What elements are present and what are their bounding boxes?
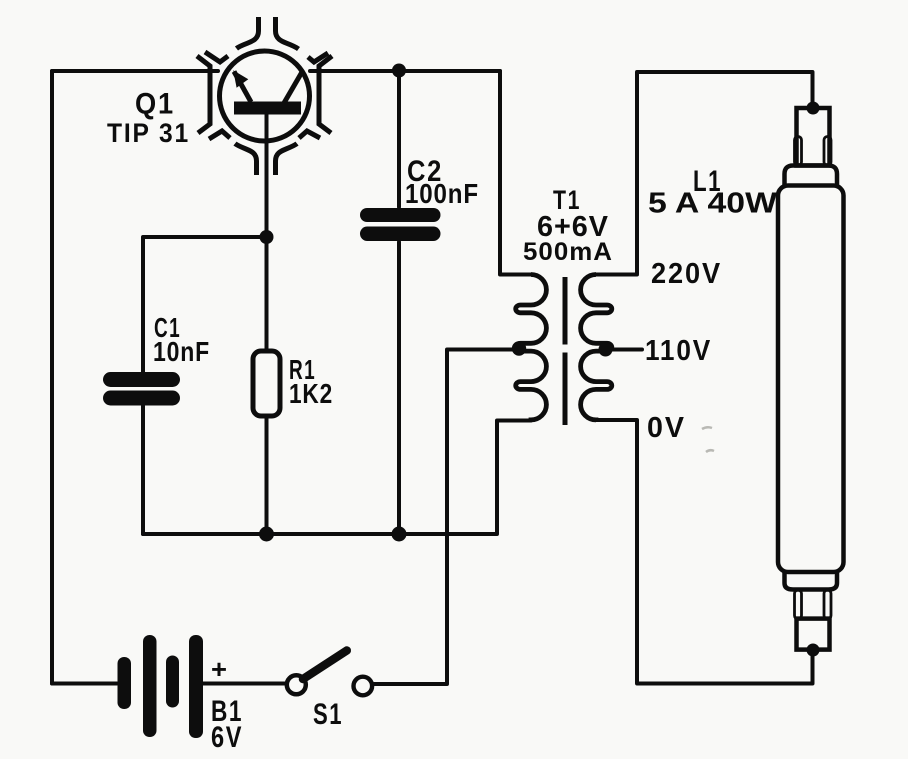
transistor Q1 case decoration right bracket: [319, 56, 332, 133]
node C2 bottom junction: [392, 527, 407, 542]
resistor R1 body: [253, 351, 280, 416]
battery B1 long plate 2: [189, 635, 203, 738]
node collector / C2 top junction: [392, 64, 406, 78]
wire C2 top: [397, 71, 401, 207]
transistor Q1 case decoration bottom leads: [235, 144, 257, 175]
switch S1 lever: [303, 651, 347, 680]
wire top-left (emitter to left rail): [52, 69, 218, 73]
lamp L1 bottom pins: [795, 590, 802, 619]
lamp L1 tube: [778, 186, 844, 573]
transistor Q1 case decoration NE tick: [308, 53, 328, 62]
node R1 bottom junction: [259, 527, 274, 542]
transformer T1 core: [563, 277, 568, 425]
wire secondary 110V stub: [605, 348, 642, 352]
wire secondary 220V lead to lamp top: [596, 72, 813, 275]
svg-text:S1: S1: [313, 698, 343, 731]
capacitor C1 plates: [103, 372, 180, 387]
lamp L1 top connector box: [797, 108, 830, 166]
wire R1 bottom: [265, 416, 269, 534]
svg-text:220V: 220V: [651, 258, 722, 290]
svg-text:+: +: [211, 654, 227, 684]
wire switch to transformer center tap riser: [374, 350, 519, 685]
lamp L1 top cap: [785, 166, 838, 186]
lamp L1 bottom connector box: [797, 619, 830, 650]
battery B1 short plate 1: [118, 657, 132, 709]
transistor Q1 case decoration left bracket: [197, 56, 210, 133]
battery B1 short plate 2: [166, 656, 179, 708]
wire battery negative lead: [52, 682, 117, 686]
svg-text:6V: 6V: [211, 721, 243, 754]
wire left rail: [50, 71, 54, 684]
transistor Q1 case decoration top leads: [237, 17, 259, 49]
svg-text:10nF: 10nF: [153, 336, 210, 367]
faint scan smudge: [702, 427, 714, 452]
transistor Q1 base bar: [234, 102, 301, 115]
wire bottom rail: [143, 421, 531, 535]
transistor Q1 emitter diagonal: [234, 72, 251, 103]
wire top collector to C2/transformer: [310, 69, 500, 73]
svg-text:500mA: 500mA: [523, 238, 613, 266]
transistor Q1 case decoration SW tick: [209, 131, 230, 139]
svg-text:0V: 0V: [647, 412, 686, 444]
lamp L1 top pins: [795, 137, 802, 166]
node primary center tap: [512, 341, 526, 355]
lamp L1 bottom cap: [785, 572, 838, 590]
svg-text:Q1: Q1: [135, 88, 175, 121]
transformer T1 secondary winding: [581, 275, 612, 421]
node lamp bottom: [807, 644, 820, 657]
node secondary 110V tap: [599, 343, 613, 357]
svg-text:TIP 31: TIP 31: [107, 118, 190, 148]
wire base to R1: [265, 237, 269, 351]
transistor Q1 case decoration NW tick: [205, 52, 228, 62]
svg-text:110V: 110V: [645, 335, 712, 367]
svg-text:100nF: 100nF: [405, 178, 479, 209]
wire C1 bottom: [141, 406, 145, 534]
node lamp top: [807, 102, 820, 115]
transformer T1 primary winding: [516, 275, 547, 421]
wire secondary 0V lead to lamp bottom: [596, 420, 813, 684]
wire C2 bottom: [397, 242, 401, 534]
transistor Q1 emitter arrowhead: [233, 70, 248, 88]
battery B1 long plate 1: [143, 635, 157, 737]
wire base lead upper: [265, 114, 269, 237]
transistor Q1 circle: [220, 51, 310, 141]
svg-text:5 A 40W: 5 A 40W: [648, 188, 778, 220]
capacitor C2 plates: [360, 208, 441, 222]
wire transformer primary top lead riser: [500, 71, 531, 275]
transistor Q1 case decoration SE tick: [299, 131, 320, 138]
wire base junction to C1 branch: [143, 237, 267, 372]
switch S1 throw contact: [354, 677, 373, 696]
node base junction: [260, 230, 274, 244]
transistor Q1 collector diagonal: [284, 72, 302, 103]
svg-text:1K2: 1K2: [289, 378, 333, 409]
wire battery positive to switch: [203, 682, 285, 686]
switch S1 pole contact: [287, 675, 306, 694]
